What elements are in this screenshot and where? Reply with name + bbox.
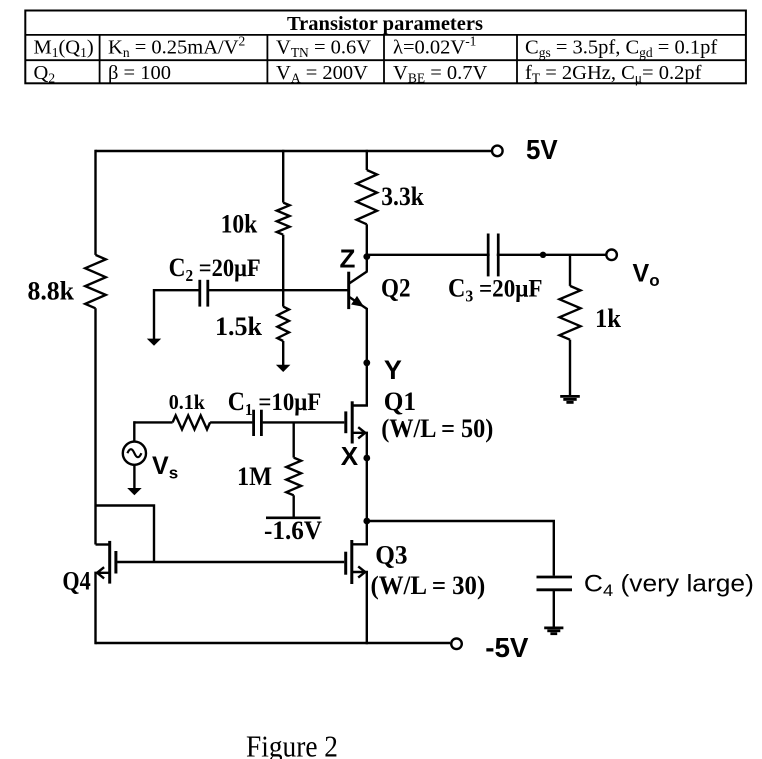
source Vs circle — [123, 442, 146, 465]
Q4 gate bar — [114, 551, 117, 574]
table: transistor parameters outer border — [25, 11, 746, 84]
label 0.1k — [169, 390, 205, 414]
Q4 source leg — [96, 573, 110, 644]
Q2 emitter diagonal — [350, 297, 368, 309]
ground arrow below 1.5k — [276, 365, 291, 372]
table cell M1(Q1) — [34, 37, 94, 61]
wire 1k to ground — [569, 340, 571, 396]
terminal Vo circle — [606, 250, 617, 261]
svg-text:1k: 1k — [595, 304, 622, 333]
wire gate line left segment — [134, 421, 172, 423]
Q3 gate bar — [344, 552, 347, 575]
svg-text:1M: 1M — [237, 462, 272, 491]
wire right column top — [366, 150, 368, 170]
wire Q2 base from C2 — [208, 289, 348, 291]
table cell Kn = 0.25mA/V2 — [108, 34, 245, 61]
Q1 source leg — [352, 433, 367, 458]
wire 1M to -1.6V bar — [293, 495, 295, 518]
svg-text:X: X — [341, 441, 359, 471]
resistor 8.8k — [85, 255, 106, 308]
svg-text:Cgs = 3.5pf, Cgd = 0.1pf: Cgs = 3.5pf, Cgd = 0.1pf — [525, 37, 717, 61]
wire node X to Q3 drain node — [366, 458, 368, 521]
svg-text:Q1: Q1 — [384, 387, 416, 416]
resistor 1M — [286, 458, 301, 496]
svg-text:Transistor parameters: Transistor parameters — [287, 13, 483, 35]
svg-text:VTN = 0.6V: VTN = 0.6V — [276, 37, 371, 61]
wire bottom rail to -5V — [96, 642, 451, 644]
wire C2 left to ground — [154, 290, 199, 339]
wire C1 to Q1 gate — [263, 421, 345, 423]
svg-text:C1 =10μF: C1 =10μF — [228, 387, 322, 419]
resistor 3.3k — [357, 170, 377, 224]
wire Vo branch down to 1k — [569, 255, 571, 286]
resistor 0.1k — [173, 415, 211, 429]
node Z dot — [363, 253, 370, 260]
label Vs — [152, 452, 178, 483]
svg-text:Q4: Q4 — [62, 567, 90, 596]
wire mid column middle — [282, 235, 284, 307]
label 1.5k — [215, 312, 263, 341]
wire Q2 emitter to node Y — [366, 308, 368, 363]
node dot on output wire — [540, 252, 546, 258]
wire left rail lower — [94, 308, 96, 544]
caption Figure 2 — [246, 729, 338, 759]
terminal -5V circle — [451, 639, 462, 650]
svg-text:Q2: Q2 — [381, 274, 411, 303]
resistor 10k — [277, 203, 290, 235]
svg-text:Vs: Vs — [152, 452, 178, 483]
svg-text:Y: Y — [384, 355, 402, 385]
label (W/L = 30) — [371, 571, 486, 600]
svg-text:3.3k: 3.3k — [381, 182, 424, 211]
svg-text:(W/L = 30): (W/L = 30) — [371, 571, 486, 600]
capacitor C4 plates — [537, 577, 573, 590]
svg-text:0.1k: 0.1k — [169, 390, 205, 414]
Q2 emitter arrow — [351, 296, 364, 307]
label 3.3k — [381, 182, 424, 211]
table cell lambda=0.02V-1 — [393, 34, 476, 59]
ground arrow below Vs — [127, 488, 142, 495]
svg-text:10k: 10k — [221, 209, 258, 238]
wire top rail to 5V — [96, 150, 492, 152]
table cell VBE = 0.7V — [393, 62, 488, 86]
svg-text:-5V: -5V — [485, 632, 529, 663]
label C2 =20uF — [169, 253, 261, 285]
capacitor C2 plates — [200, 280, 208, 307]
label C1 =10uF — [228, 387, 322, 419]
wire gate line Q4 to Q3 — [117, 561, 344, 563]
label Q3 — [375, 541, 407, 570]
resistor 1.5k — [277, 307, 289, 341]
svg-text:VBE = 0.7V: VBE = 0.7V — [393, 62, 488, 86]
svg-text:C2 =20μF: C2 =20μF — [169, 253, 261, 285]
svg-text:VA = 200V: VA = 200V — [276, 62, 368, 86]
Q2 collector diagonal — [350, 271, 368, 283]
label 1M — [237, 462, 272, 491]
transistor Q3 channel bar — [350, 540, 353, 584]
wire Vs to ground — [133, 465, 135, 489]
label C3 =20uF — [448, 274, 543, 306]
svg-text:Q2: Q2 — [34, 62, 56, 86]
label Q1 — [384, 387, 416, 416]
table cell beta = 100 — [108, 62, 171, 84]
wire 3.3k to Q2 collector — [366, 224, 368, 271]
svg-text:(W/L = 50): (W/L = 50) — [381, 414, 493, 443]
wire node Z to C3 — [367, 254, 606, 256]
svg-text:C4 (very large): C4 (very large) — [584, 571, 754, 601]
Q3 source leg — [352, 572, 367, 644]
Q1 gate bar — [344, 411, 347, 433]
wire Vs branch down — [133, 421, 135, 441]
wire 0.1k to C1 — [210, 421, 252, 423]
svg-text:M1(Q1): M1(Q1) — [34, 37, 94, 61]
wire mid column top — [282, 150, 284, 203]
svg-text:Q3: Q3 — [375, 541, 407, 570]
label -5V — [485, 632, 529, 663]
resistor 1k — [560, 286, 581, 340]
svg-text:Vo: Vo — [633, 259, 660, 290]
wire branch to C4 — [367, 521, 554, 576]
svg-text:fT = 2GHz, Cμ= 0.2pf: fT = 2GHz, Cμ= 0.2pf — [525, 62, 702, 86]
wire left rail upper — [94, 150, 96, 255]
label -1.6V — [264, 516, 322, 545]
svg-text:λ=0.02V-1: λ=0.02V-1 — [393, 34, 476, 59]
table cell VTN = 0.6V — [276, 37, 371, 61]
earth ground below C4 — [544, 628, 563, 634]
table header divider — [25, 35, 746, 60]
label Y — [384, 355, 402, 385]
label Vo — [633, 259, 660, 290]
table cell VA = 200V — [276, 62, 368, 86]
label Q4 — [62, 567, 90, 596]
capacitor C1 plates — [254, 410, 262, 436]
transistor Q2 base bar — [347, 272, 350, 309]
node X dot — [363, 455, 370, 462]
svg-text:5V: 5V — [526, 134, 558, 165]
wire C4 to ground — [553, 591, 555, 627]
wire 1.5k to ground — [282, 341, 284, 366]
svg-text:-1.6V: -1.6V — [264, 516, 322, 545]
node dot at Q3 drain — [363, 518, 370, 525]
svg-text:1.5k: 1.5k — [215, 312, 263, 341]
svg-text:Z: Z — [340, 243, 356, 273]
wire Q3 drain — [352, 521, 367, 544]
table header text: Transistor parameters — [287, 13, 483, 35]
node Y dot — [363, 359, 370, 366]
table cell Cgs = 3.5pf, Cgd = 0.1pf — [525, 37, 717, 61]
svg-text:8.8k: 8.8k — [28, 277, 75, 306]
table column dividers — [100, 35, 517, 83]
svg-text:Figure 2: Figure 2 — [246, 729, 338, 759]
earth ground below 1k — [560, 396, 580, 402]
Q1 source arrow — [358, 427, 365, 438]
label Z — [340, 243, 356, 273]
ground arrow below C2 — [147, 339, 161, 346]
capacitor C3 plates — [488, 234, 498, 277]
label X — [341, 441, 359, 471]
label 5V — [526, 134, 558, 165]
svg-text:β = 100: β = 100 — [108, 62, 171, 84]
wire 1M branch — [293, 422, 295, 457]
Q4 source arrow — [97, 567, 104, 578]
label 1k — [595, 304, 622, 333]
table cell fT = 2GHz, Cmu= 0.2pf — [525, 62, 702, 86]
terminal 5V circle — [492, 146, 503, 157]
Q3 source arrow — [358, 566, 365, 577]
svg-text:C3 =20μF: C3 =20μF — [448, 274, 543, 306]
label 10k — [221, 209, 258, 238]
label Q2 — [381, 274, 411, 303]
svg-text:Kn = 0.25mA/V2: Kn = 0.25mA/V2 — [108, 34, 245, 61]
table cell Q2 — [34, 62, 56, 86]
wire node Y to Q1 drain — [352, 363, 367, 406]
transistor Q4 channel bar — [108, 541, 111, 584]
wire jog rail to gate line — [96, 506, 155, 563]
transistor Q1 channel bar — [351, 401, 354, 443]
supply bar -1.6V — [266, 516, 320, 519]
wire Q4 drain — [96, 543, 110, 545]
label 8.8k — [28, 277, 75, 306]
label (W/L = 50) — [381, 414, 493, 443]
label C4 (very large) — [584, 571, 754, 601]
